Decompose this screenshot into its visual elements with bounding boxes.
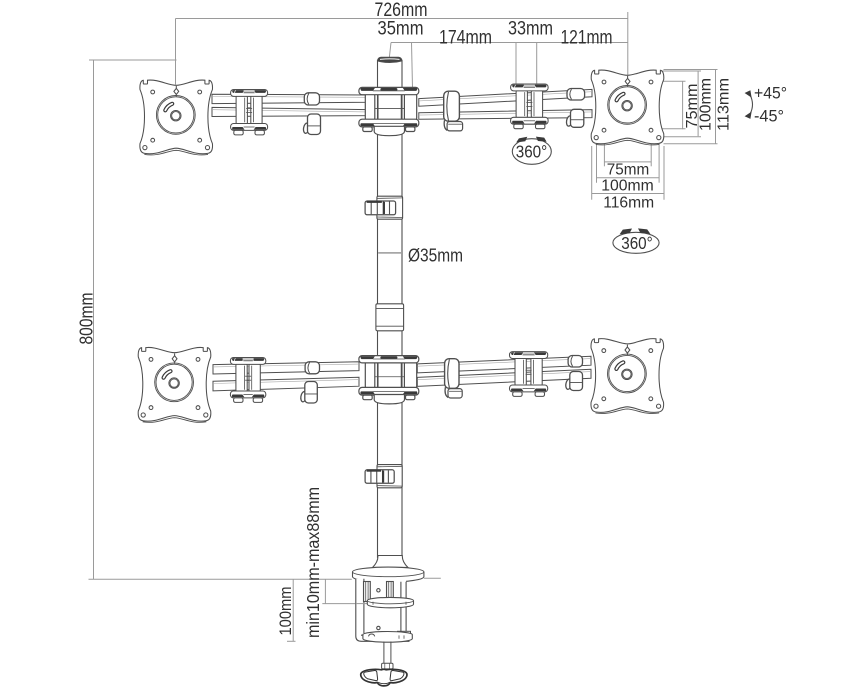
dim 726mm top (176, 18, 628, 20)
lower-left arm upper tube (213, 362, 359, 374)
dim min10mm-max88mm (324, 579, 326, 603)
lower-right arm upper tube (417, 356, 591, 373)
VESA plate upper-left (140, 80, 213, 155)
pole top cap (378, 57, 403, 62)
rotation badge 360 vesa plate (613, 232, 659, 253)
clamp T-knob (361, 669, 407, 686)
VESA plate lower-right (591, 339, 664, 414)
cable clip upper-left arm top tube (304, 93, 319, 105)
svg-text:174mm: 174mm (439, 28, 492, 49)
svg-text:Ø35mm: Ø35mm (408, 246, 463, 266)
upper-left arm lower tube (212, 107, 367, 116)
desk surface line (89, 578, 352, 580)
svg-text:35mm: 35mm (378, 19, 424, 40)
clamp top disc (353, 567, 424, 582)
lower-right arm lower tube (417, 369, 591, 386)
cable clip upper-right arm top tube (567, 89, 585, 101)
svg-text:360°: 360° (621, 233, 653, 253)
cable clip lower-right arm top tube (568, 356, 582, 368)
svg-text:360°: 360° (516, 141, 548, 161)
clamp C bracket (356, 579, 410, 642)
pole clamp knob lower (365, 465, 402, 488)
cable clip upper-left arm bottom tube (303, 123, 310, 134)
upper-left arm upper tube (212, 94, 367, 103)
upper-right arm upper tube (419, 89, 592, 106)
dim 100mm clamp height (292, 579, 294, 641)
pole (378, 60, 403, 557)
svg-text:+45°: +45° (754, 84, 787, 102)
dim 800mm left (93, 60, 95, 579)
svg-text:75mm: 75mm (607, 162, 650, 179)
cable clip upper-right arm bottom tube (566, 115, 573, 126)
cable clip lower-right arm bottom tube (565, 379, 572, 390)
cable clip lower-left arm bottom tube (300, 391, 307, 402)
VESA plate upper-right (591, 70, 664, 145)
pole cross clamp upper (359, 87, 419, 135)
dim 116mm below plate (591, 146, 593, 200)
svg-text:100mm: 100mm (277, 587, 295, 636)
svg-text:-45°: -45° (754, 107, 784, 125)
dim 100mm right vertical (661, 70, 702, 72)
cable clip upper-right arm near pole (444, 91, 460, 121)
cable clip lower-right arm near pole (445, 359, 459, 389)
clamp screw shaft (369, 634, 394, 669)
dim 113mm right vertical (664, 69, 718, 71)
elbow joint upper-right arm (511, 84, 548, 129)
svg-text:800mm: 800mm (75, 293, 96, 345)
svg-text:100mm: 100mm (698, 78, 715, 131)
min-max tick overlay (356, 603, 368, 605)
svg-text:116mm: 116mm (603, 195, 654, 212)
elbow joint lower-left arm (230, 358, 265, 403)
cable clip lower-left arm top tube (305, 362, 319, 374)
dim 100mm below plate (596, 141, 598, 183)
dim 75mm right vertical (653, 80, 686, 82)
clamp middle shelf (367, 597, 413, 607)
pole sleeve joint (376, 304, 404, 331)
dim 75mm below plate (603, 133, 605, 167)
VESA plate lower-left (138, 347, 211, 422)
svg-text:33mm: 33mm (508, 19, 553, 40)
svg-text:100mm: 100mm (601, 178, 654, 195)
clamp foot plate (398, 631, 411, 635)
rotation badge 360 arm joint (512, 139, 551, 165)
pole height knob upper (365, 196, 403, 219)
clamp bell flare (373, 556, 408, 568)
svg-text:min10mm-max88mm: min10mm-max88mm (303, 487, 323, 638)
elbow joint lower-right arm (510, 352, 548, 397)
svg-text:113mm: 113mm (716, 78, 733, 131)
elbow joint upper-left arm (231, 90, 268, 135)
svg-text:121mm: 121mm (561, 28, 613, 49)
lower-left arm lower tube (213, 377, 359, 391)
pole seam line (378, 252, 401, 254)
upper-right arm lower tube (419, 110, 592, 120)
dim row 35mm/174mm/33mm/121mm (391, 42, 628, 44)
pole cross clamp lower (359, 356, 419, 404)
